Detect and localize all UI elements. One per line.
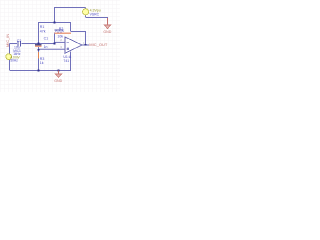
- junction dots: [38, 22, 87, 72]
- wire vertical x9 from corner down to source bubble: [9, 44, 11, 55]
- svg-text:MIC_OUT: MIC_OUT: [89, 42, 108, 47]
- node junction (38,70): [38, 70, 40, 72]
- wire inverting input y43 right part: [22, 43, 55, 45]
- source bubble MIC_IN: [6, 54, 12, 60]
- node junction (86,45): [85, 44, 87, 46]
- capacitor C1 top plate: [35, 44, 42, 46]
- svg-text:GND: GND: [103, 30, 111, 34]
- wire capacitor C1 bottom lead: [38, 46, 40, 49]
- svg-text:MIC_IN: MIC_IN: [6, 34, 10, 47]
- wire top horizontal from feedback riser to source bubble: [54, 7, 86, 9]
- node junction (54,22): [54, 22, 56, 24]
- svg-text:741: 741: [63, 59, 69, 63]
- svg-text:GND: GND: [54, 79, 62, 83]
- wire horizontal y22 output net: [38, 22, 71, 24]
- op-amp plus sign: [67, 48, 70, 51]
- wire output y45: [82, 44, 89, 46]
- wire vertical through top-right bubble: [85, 8, 87, 18]
- svg-text:1k: 1k: [40, 61, 44, 65]
- wire R2 left lead down to inverting node: [54, 33, 56, 44]
- wire vertical x71: [70, 23, 72, 32]
- wire inverting input y43 left part: [10, 43, 18, 45]
- source bubble top right: [83, 9, 89, 15]
- wire capacitor C1 top lead: [38, 44, 40, 46]
- node junction (58,70): [58, 70, 60, 72]
- wire horizontal y17 to top-right ground: [86, 17, 109, 19]
- svg-text:R2: R2: [59, 27, 64, 31]
- op-amp minus sign: [67, 41, 70, 43]
- svg-text:1n: 1n: [44, 45, 48, 49]
- node junction (54,43): [54, 43, 56, 45]
- svg-text:50Hz: 50Hz: [10, 58, 18, 62]
- op-amp U1 triangle: [65, 37, 82, 53]
- wire op-amp pin4 riser x71: [70, 52, 72, 71]
- svg-text:C1: C1: [44, 37, 49, 41]
- resistor R3 body highlight: [38, 52, 40, 59]
- node junction (38,49.5): [38, 49, 40, 51]
- ground symbol top right: [103, 18, 111, 34]
- wire horizontal y31: [71, 31, 87, 33]
- wire vertical x9 from source bubble down: [9, 60, 11, 71]
- svg-text:C2: C2: [17, 39, 22, 43]
- svg-text:10k: 10k: [57, 35, 63, 39]
- wire resistor R3 vertical x38: [38, 50, 40, 71]
- svg-text:47k: 47k: [40, 29, 46, 33]
- wire ground rail y70: [10, 70, 72, 72]
- capacitor C1 bottom plate: [35, 45, 42, 47]
- svg-text:VSRC: VSRC: [90, 13, 100, 17]
- wire inverting pin segment: [54, 41, 65, 43]
- node junction (38,43): [38, 43, 40, 45]
- ground symbol bottom: [54, 71, 62, 83]
- wire resistor R1 vertical x38: [38, 23, 40, 44]
- wire vertical x86 down to output: [85, 32, 87, 46]
- wire riser x54 top: [54, 8, 56, 23]
- wire noninverting input y49: [39, 48, 66, 50]
- resistor R2 body: [55, 30, 72, 34]
- capacitor C2 plates: [18, 41, 20, 47]
